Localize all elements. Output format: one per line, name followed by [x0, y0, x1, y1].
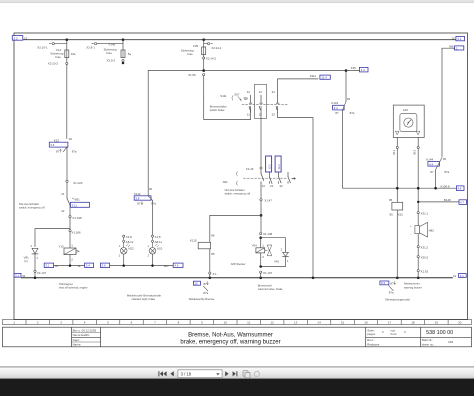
svg-text:Y04: Y04	[252, 244, 258, 248]
wire: X1:137 to bus 31	[34, 273, 36, 278]
svg-text:X1:138: X1:138	[263, 232, 273, 236]
connector X1:120	[66, 180, 83, 185]
svg-text:H22: H22	[128, 247, 134, 251]
svg-text:21: 21	[259, 90, 263, 94]
svg-text:S91: S91	[75, 197, 81, 201]
net ref A100:8	[440, 184, 464, 190]
wire: Y13 to M node	[69, 255, 71, 266]
svg-text:12: 12	[194, 282, 198, 286]
relay coil K115	[190, 233, 215, 256]
svg-text:87: 87	[203, 282, 207, 286]
wire: X1:198 to X1:186	[69, 218, 71, 230]
page number field	[178, 370, 222, 378]
S91 actuator brackets	[236, 172, 239, 186]
svg-text:87a: 87a	[350, 111, 355, 115]
svg-text:538 100 00: 538 100 00	[426, 330, 453, 336]
svg-text:87: 87	[137, 202, 141, 206]
relay coil K22	[389, 198, 403, 217]
svg-text:3.2: 3.2	[13, 36, 18, 40]
svg-text:15: 15	[341, 321, 345, 325]
contact cross-ref K115 below bus	[193, 281, 208, 295]
brake switch S111 contact 21-22 box	[254, 85, 266, 119]
wire: X1:66 into brake switch box	[203, 76, 205, 98]
svg-text:15: 15	[24, 36, 28, 40]
svg-text:22: 22	[259, 112, 263, 116]
svg-text:3.6: 3.6	[102, 264, 106, 268]
svg-text:4.1: 4.1	[457, 37, 462, 41]
brake valve caption	[258, 283, 283, 291]
svg-text:87a: 87a	[444, 170, 449, 174]
node: H21 ground junction	[151, 264, 154, 267]
svg-text:Hubmagnet: Hubmagnet	[59, 282, 73, 286]
svg-text:X2:14-2: X2:14-2	[206, 56, 217, 60]
svg-text:B148: B148	[444, 198, 451, 202]
connector X2:14-2	[203, 55, 217, 61]
node: junction A15 pin2	[417, 187, 420, 190]
svg-text:K144: K144	[426, 158, 433, 162]
connector X1:43	[246, 167, 262, 171]
svg-text:shut off solenoid, engine: shut off solenoid, engine	[59, 286, 88, 290]
wire: A15 pin1 to K22 coil	[396, 149, 398, 203]
svg-text:X2:14-1: X2:14-1	[211, 46, 222, 50]
svg-text:16: 16	[364, 321, 368, 325]
connector X2:14-1	[204, 43, 222, 50]
net label 15 right ref box	[451, 36, 464, 41]
connector X1:107	[260, 271, 273, 275]
svg-text:Not-Aus-Schalter: Not-Aus-Schalter	[225, 188, 245, 192]
first page button	[158, 371, 166, 376]
emergency off caption (left)	[19, 202, 45, 210]
svg-text:Bremsschalter: Bremsschalter	[210, 105, 227, 109]
wire: Y04 to bottom junction	[260, 253, 262, 267]
connector X1:53	[417, 270, 428, 274]
node: bus junction F14	[66, 38, 69, 41]
relay contact K144	[426, 157, 449, 174]
svg-text:32: 32	[279, 184, 283, 188]
svg-text:12.4: 12.4	[321, 76, 327, 80]
svg-text:4.2: 4.2	[334, 106, 338, 110]
module A15	[393, 105, 424, 137]
svg-text:12.3: 12.3	[277, 164, 281, 170]
svg-text:87: 87	[335, 111, 339, 115]
indicator caption	[127, 293, 162, 301]
svg-text:85: 85	[389, 213, 393, 217]
wire: contact 22 down to X1:43	[260, 118, 262, 166]
svg-text:M-: M-	[55, 264, 58, 268]
svg-text:3.3: 3.3	[381, 281, 385, 285]
previous view icon (disabled)	[243, 371, 250, 378]
net label 15 left ref box	[12, 36, 27, 41]
svg-text:31: 31	[453, 274, 457, 278]
svg-text:22: 22	[61, 209, 65, 213]
svg-text:Meldeleuchte Bremskontrolle: Meldeleuchte Bremskontrolle	[127, 293, 162, 297]
drawing frame	[14, 33, 468, 320]
node: Y13 ground junction	[69, 264, 72, 267]
title block	[3, 327, 472, 347]
svg-text:X2:10-2: X2:10-2	[48, 62, 59, 66]
svg-text:brake, emergency off, warning: brake, emergency off, warning buzzer	[180, 339, 280, 345]
ref plate left (blue)	[266, 156, 272, 172]
relay contact K112	[134, 187, 156, 205]
node: junction to K143	[345, 69, 348, 72]
svg-text:H21: H21	[157, 247, 163, 251]
net ref M6 left	[100, 263, 109, 268]
wire: K22 contact to X1:120	[66, 147, 68, 180]
svg-text:M-: M-	[78, 264, 81, 268]
svg-text:15: 15	[451, 36, 455, 40]
svg-text:86: 86	[211, 233, 215, 237]
connector X1:8 (left)	[123, 235, 132, 239]
svg-text:Replaces:: Replaces:	[367, 342, 380, 346]
svg-text:X6:2: X6:2	[413, 149, 416, 155]
wire: K22 coil to bus	[396, 210, 398, 278]
node: junction K115 branch	[260, 214, 263, 217]
wire: top supply bus 15	[23, 39, 456, 41]
svg-text:87: 87	[430, 170, 434, 174]
node: bus junction Y04	[259, 277, 262, 280]
svg-text:87a: 87a	[389, 291, 394, 295]
svg-text:A8:12: A8:12	[126, 240, 134, 244]
wire: bottom bus 31	[22, 277, 453, 279]
svg-text:F25: F25	[193, 44, 198, 48]
svg-text:X30:2: X30:2	[421, 256, 429, 260]
svg-text:19: 19	[435, 321, 439, 325]
connector X31:1	[417, 212, 428, 216]
svg-text:F25: F25	[351, 66, 356, 70]
wire: W6 to K144	[442, 48, 455, 156]
svg-text:4.6: 4.6	[174, 264, 178, 268]
node: H22 ground junction	[122, 264, 125, 267]
S91 pin numbers	[262, 184, 283, 188]
svg-text:4.1: 4.1	[460, 274, 464, 278]
svg-text:X1:107: X1:107	[263, 271, 273, 275]
svg-text:12: 12	[247, 90, 251, 94]
svg-text:4.8: 4.8	[457, 187, 461, 191]
svg-text:X1:8: X1:8	[126, 235, 132, 239]
wire: A15 pin 2 down	[417, 137, 419, 146]
svg-text:+: +	[410, 224, 412, 228]
node: junction at F25 drop	[202, 69, 205, 72]
net ref B148	[417, 198, 467, 205]
svg-text:20: 20	[458, 321, 462, 325]
wire: K115 coil to X1:110	[209, 249, 211, 272]
svg-text:X1:186: X1:186	[71, 230, 81, 234]
buzzer H82	[410, 222, 434, 237]
wire: V42 loop	[261, 238, 286, 267]
svg-text:30: 30	[69, 137, 73, 141]
svg-text:Gepr.:: Gepr.:	[73, 338, 81, 342]
net ref F25 arrow box	[351, 66, 368, 72]
svg-text:X31:1: X31:1	[421, 212, 429, 216]
node: F146 output stub end	[122, 62, 125, 65]
svg-text:AifP-Stecker: AifP-Stecker	[231, 262, 246, 266]
svg-text:4.7: 4.7	[460, 201, 464, 205]
svg-text:5a: 5a	[128, 52, 132, 56]
emergency off caption (right)	[225, 188, 251, 196]
svg-text:21: 21	[61, 192, 65, 196]
diode V42	[274, 247, 289, 263]
contact 21-22 pin numbers	[259, 90, 263, 116]
svg-text:X2:9-1: X2:9-1	[86, 46, 95, 50]
svg-text:3.1: 3.1	[45, 264, 49, 268]
svg-text:F146: F146	[109, 42, 116, 46]
svg-text:13: 13	[294, 321, 298, 325]
svg-text:87: 87	[56, 150, 60, 154]
svg-text:X1...: X1...	[212, 272, 218, 276]
svg-text:A8:11: A8:11	[155, 240, 163, 244]
wire: contact 32 to right feeder	[278, 112, 313, 277]
svg-text:H82: H82	[429, 228, 435, 232]
svg-text:M6-: M6-	[164, 264, 169, 268]
fuse F146	[104, 40, 132, 58]
svg-text:X1:43: X1:43	[246, 167, 254, 171]
svg-text:pages:: pages:	[367, 332, 376, 336]
node: Y04 top junction	[259, 236, 262, 239]
svg-text:12.2: 12.2	[268, 164, 272, 170]
wire: H22 to ground link	[123, 254, 125, 266]
svg-text:87a: 87a	[151, 202, 156, 206]
svg-text:Not-Aus-Schalter: Not-Aus-Schalter	[19, 202, 39, 206]
svg-text:switch brake: switch brake	[210, 108, 225, 112]
connector X1:198	[69, 206, 82, 220]
svg-text:11: 11	[247, 112, 250, 116]
svg-text:Warnsummer: Warnsummer	[404, 281, 420, 285]
net ref W6 drop	[449, 45, 464, 51]
column number strip	[3, 320, 472, 325]
svg-text:switch, emergency off: switch, emergency off	[19, 206, 45, 210]
wire: X1:107 to bus	[260, 273, 262, 278]
connector X31:2	[417, 246, 428, 250]
svg-text:solenoid valve, brake: solenoid valve, brake	[258, 287, 283, 291]
node: bus junction F25	[202, 38, 205, 41]
svg-text:X1:120: X1:120	[73, 181, 83, 185]
net ref S111 box	[310, 74, 331, 80]
svg-text:V42: V42	[274, 260, 280, 264]
node: bus junction K115	[209, 277, 212, 280]
svg-text:18: 18	[411, 321, 415, 325]
wire: branch to V91	[35, 229, 70, 247]
contact S111 12-11	[249, 95, 252, 112]
node: bus junction K22 coil	[396, 277, 399, 280]
svg-text:12: 12	[262, 184, 266, 188]
svg-text:-: -	[410, 232, 411, 236]
relay contact K22	[49, 137, 77, 154]
emergency-off switch S91 contact row	[261, 169, 290, 183]
connector X1:47	[260, 183, 272, 202]
svg-text:(1): (1)	[24, 259, 28, 263]
svg-text:X1:66: X1:66	[188, 73, 196, 77]
wire: junction to X1:138	[260, 217, 262, 233]
wire: X1:66 routed to contact 11	[204, 98, 251, 120]
svg-text:fuse: fuse	[106, 51, 112, 55]
svg-text:X2:9-2: X2:9-2	[107, 58, 116, 62]
diode V91	[24, 244, 39, 263]
svg-text:10a: 10a	[71, 52, 76, 56]
connector X1:186	[69, 230, 81, 235]
svg-text:85: 85	[211, 252, 215, 256]
wire: V91 to X1:137	[34, 254, 36, 270]
relay contact K143	[331, 71, 354, 115]
switch S111 labels	[220, 92, 248, 100]
svg-text:4.3: 4.3	[361, 68, 365, 72]
buzzer caption	[404, 281, 422, 289]
connector X1:110	[209, 272, 219, 276]
svg-text:indicator light, brake: indicator light, brake	[132, 297, 156, 301]
svg-text:30: 30	[347, 97, 351, 101]
svg-text:86: 86	[389, 198, 393, 202]
prev page button	[170, 371, 173, 376]
ref plate right (blue)	[275, 156, 281, 172]
svg-text:X2:10-1: X2:10-1	[37, 46, 48, 50]
connector X1:8 (right)	[151, 235, 160, 239]
node: junction A15 pin1	[396, 187, 399, 190]
wire: distribution node line	[148, 70, 359, 72]
svg-text:A100:8: A100:8	[440, 184, 450, 188]
wire: M ground link lamps	[110, 265, 173, 267]
solenoid valve Y04	[252, 238, 272, 259]
wire: A15 pin 1 down	[396, 137, 398, 146]
switch contact S91 left	[67, 197, 89, 207]
svg-text:31: 31	[272, 90, 276, 94]
svg-text:Name:: Name:	[73, 343, 82, 347]
wire: K143 87 down and across to A100:8	[342, 111, 456, 189]
svg-text:S111: S111	[310, 74, 317, 78]
viewer bottom toolbar	[0, 366, 474, 396]
node: bus junction V91	[34, 277, 37, 280]
mechanical link dashes S111	[242, 103, 288, 105]
fuse F14	[50, 40, 76, 59]
wire: F25 output to node	[203, 59, 205, 71]
svg-text:Bez.u. 06.12.2005: Bez.u. 06.12.2005	[73, 329, 97, 333]
svg-text:X6:1: X6:1	[393, 149, 396, 155]
net ref M right	[78, 263, 94, 268]
connector X2:9-2	[107, 58, 125, 62]
connector A8:11	[151, 237, 162, 244]
svg-text:K143: K143	[331, 101, 338, 105]
net label 31 right	[453, 274, 466, 278]
svg-text:10: 10	[224, 321, 228, 325]
node: Y04 bottom junction	[259, 265, 262, 268]
svg-text:14: 14	[317, 321, 321, 325]
svg-text:22: 22	[270, 184, 274, 188]
next page button	[225, 371, 228, 376]
wire: branch to relay coil K115	[210, 215, 261, 242]
svg-text:31: 31	[22, 274, 26, 278]
connector A15 pin1	[393, 146, 399, 155]
solenoid Y13	[59, 232, 80, 262]
contact 12-11 pin numbers	[247, 90, 251, 116]
wire: M ground link left	[54, 265, 85, 267]
svg-text:30: 30	[149, 187, 153, 191]
wire: node line to K112 drop	[147, 71, 149, 196]
wire: A15 pin2 to buzzer line	[417, 149, 419, 278]
svg-text:Meldeleuchte Bremse: Meldeleuchte Bremse	[189, 297, 215, 301]
net ref M left	[44, 263, 58, 268]
svg-text:fuse: fuse	[55, 55, 61, 59]
svg-text:003: 003	[448, 340, 453, 344]
svg-text:3.1: 3.1	[15, 274, 19, 278]
connector X1:66	[188, 73, 205, 77]
node: junction K144	[434, 187, 437, 190]
svg-text:K22: K22	[398, 213, 404, 217]
svg-text:Name:Hadlin: Name:Hadlin	[73, 333, 90, 337]
svg-text:from:: from:	[391, 332, 398, 336]
svg-text:X1:53: X1:53	[421, 270, 429, 274]
svg-text:3 / 18: 3 / 18	[181, 371, 192, 376]
svg-text:3.6: 3.6	[50, 143, 54, 147]
node: bus junction F146	[122, 38, 125, 41]
svg-text:warning buzzer: warning buzzer	[404, 286, 422, 290]
node: bus junction buzzer	[417, 277, 420, 280]
connector X2:9-1	[86, 43, 123, 50]
brake switch caption	[210, 105, 227, 113]
svg-text:Y13: Y13	[59, 245, 65, 249]
svg-text:Überwachungsmodul: Überwachungsmodul	[385, 297, 410, 301]
svg-text:X1:137: X1:137	[37, 271, 47, 275]
svg-text:11: 11	[247, 321, 250, 325]
wire: contact 31 up to S111 ref	[278, 79, 318, 95]
connector X1:137	[34, 270, 47, 275]
svg-text:K22: K22	[54, 138, 60, 142]
svg-text:K115: K115	[190, 239, 197, 243]
connector X1:138	[260, 232, 273, 236]
wire: X1:120 to S91 contact	[66, 182, 68, 198]
svg-text:17: 17	[388, 321, 392, 325]
wire: K112 output to lamp H21	[152, 200, 154, 235]
svg-text:3.11: 3.11	[72, 203, 78, 207]
svg-text:X1:198: X1:198	[72, 216, 82, 220]
wire: F14 output down to K22 contact	[66, 65, 68, 139]
wire: X1:47 down to junction	[260, 201, 262, 216]
contact S111 31-32	[276, 95, 279, 112]
contact cross-ref K22 below bus	[380, 281, 396, 295]
svg-text:fuse: fuse	[187, 52, 193, 56]
schematic content	[12, 36, 466, 302]
svg-text:3.4: 3.4	[86, 264, 90, 268]
connector X2:10-2	[48, 58, 68, 66]
svg-text:3.8: 3.8	[135, 197, 139, 201]
svg-text:switch, emergency off: switch, emergency off	[225, 191, 251, 195]
viewer top gray strip	[0, 0, 474, 3]
net label 31 left	[14, 273, 26, 278]
svg-text:X1:8: X1:8	[155, 235, 161, 239]
S91 actuator arrow	[292, 178, 296, 180]
solenoid caption	[59, 282, 88, 290]
svg-text:4.4: 4.4	[429, 162, 433, 166]
wire: H21 to ground link	[152, 254, 154, 266]
svg-text:X1:47: X1:47	[264, 199, 272, 203]
svg-text:12: 12	[271, 321, 275, 325]
svg-text:RG: RG	[244, 96, 249, 100]
svg-text:S07: S07	[234, 92, 240, 96]
node: bus junction right feeder	[312, 277, 315, 280]
connector X2:10-1	[37, 43, 67, 50]
switch S111 actuator symbol	[232, 96, 247, 101]
connector X30:2	[417, 256, 428, 260]
svg-text:A15: A15	[403, 108, 409, 112]
indicator lamp H22	[119, 242, 134, 257]
svg-text:S91: S91	[223, 180, 229, 184]
svg-text:S111: S111	[220, 94, 227, 98]
net ref M6 right	[164, 263, 183, 268]
contact S111 21-22	[260, 95, 263, 118]
contact 31-32 pin numbers	[272, 90, 276, 116]
indicator lamp H21	[148, 242, 163, 257]
svg-text:sheet no.:: sheet no.:	[422, 342, 435, 346]
wire: X1:110 to bus	[209, 274, 211, 278]
svg-text:30: 30	[443, 157, 447, 161]
fuse F25	[181, 40, 206, 56]
